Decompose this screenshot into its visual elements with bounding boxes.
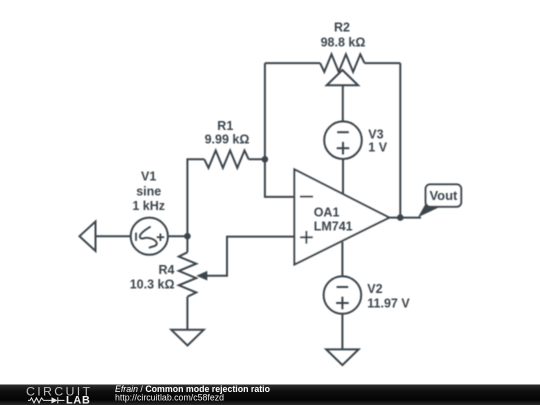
label V2 value [367, 282, 410, 310]
footer bar [0, 385, 540, 405]
label R1 value [205, 119, 250, 147]
svg-text:V1: V1 [141, 169, 156, 183]
wire R4 to ground [186, 297, 188, 330]
svg-text:R4: R4 [159, 263, 175, 277]
svg-text:V2: V2 [367, 282, 382, 296]
label V1 value [132, 169, 165, 213]
wire op-amp bottom to V2 [341, 242, 343, 276]
flag Vout tail [418, 203, 441, 218]
node B output junction dot [397, 214, 404, 221]
svg-text:OA1: OA1 [314, 205, 340, 219]
voltage source V3 [324, 121, 362, 159]
svg-text:sine: sine [136, 184, 161, 198]
op-amp OA1 triangle [294, 169, 389, 264]
svg-text:1 V: 1 V [368, 141, 387, 155]
voltage source V1 (sine) [131, 218, 168, 255]
svg-text:10.3 kΩ: 10.3 kΩ [130, 277, 175, 291]
wire feedback right column [399, 63, 401, 218]
op-amp minus symbol [300, 196, 313, 198]
resistor R4 (vertical) [179, 252, 196, 296]
svg-text:R1: R1 [217, 119, 233, 133]
label V3 value [368, 127, 387, 154]
wire node A up to R1 [187, 159, 204, 236]
wire output [389, 217, 421, 219]
svg-text:9.99 kΩ: 9.99 kΩ [205, 133, 250, 147]
svg-text:98.8 kΩ: 98.8 kΩ [321, 36, 366, 50]
ground (sideways, left of V1) [80, 222, 96, 252]
CircuitLab logo squiggle resistor-diode [28, 397, 65, 403]
svg-text:LM741: LM741 [314, 219, 353, 233]
flag Vout box [426, 184, 462, 206]
svg-text:LAB: LAB [66, 394, 91, 405]
voltage source V2 [324, 276, 362, 314]
wire V1 right to node A [168, 235, 188, 237]
svg-text:http://circuitlab.com/c58fezd: http://circuitlab.com/c58fezd [115, 393, 224, 403]
node A junction dot [184, 233, 191, 240]
wire R2 left lead [265, 62, 320, 64]
wire V2 to ground [341, 314, 343, 350]
ground under R4 [171, 330, 203, 346]
op-amp plus symbol [300, 231, 313, 244]
wiper arrow of R4 (filled) [196, 271, 207, 281]
svg-text:1 kHz: 1 kHz [132, 199, 165, 213]
ground under V2 [326, 349, 358, 365]
svg-text:Vout: Vout [429, 188, 458, 203]
wire left feedback column and minus input [265, 63, 295, 197]
svg-text:R2: R2 [334, 21, 350, 35]
svg-text:11.97 V: 11.97 V [367, 297, 410, 311]
label R4 value [130, 263, 175, 292]
wire R1 right to junction [249, 158, 265, 160]
wire + input from wiper [206, 237, 294, 276]
wire wiper to V3 [342, 85, 344, 121]
label R2 value [321, 21, 366, 50]
resistor R1 [204, 151, 248, 168]
resistor R2 [320, 54, 364, 72]
wire R2 right lead [365, 62, 401, 64]
wire node A down to R4 [186, 236, 188, 252]
potentiometer wiper arrow of R2 [327, 70, 358, 85]
label OA1 LM741 [314, 205, 353, 233]
svg-text:V3: V3 [368, 127, 383, 141]
wire V1 left terminal [96, 235, 131, 237]
wire V3 to op-amp top edge [342, 159, 344, 195]
node junction dot (R1 / feedback) [262, 156, 269, 163]
